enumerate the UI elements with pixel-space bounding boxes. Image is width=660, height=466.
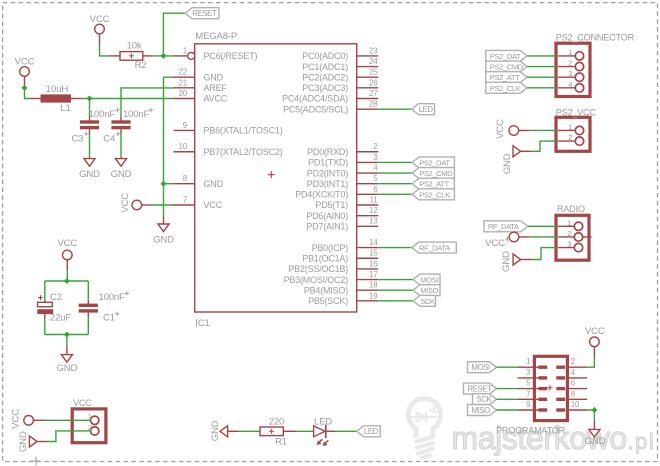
svg-text:MISO: MISO [420, 286, 438, 295]
IC1 pin 6 PD4(XCK/T0) (right) [295, 185, 378, 200]
ground GND (C1/C2) [61, 355, 72, 363]
net label PS2_ATT [412, 178, 454, 189]
svg-text:PS2_CMD: PS2_CMD [490, 62, 524, 71]
svg-text:16: 16 [369, 259, 378, 268]
wire pin28 to LED flag [378, 108, 411, 110]
PROGRAMATOR pin 4 (right) [556, 368, 587, 380]
connector RADIO body [556, 215, 589, 260]
svg-text:3: 3 [567, 240, 571, 249]
svg-text:10uH: 10uH [46, 84, 68, 95]
IC1 pin 20 AVCC (left) [174, 89, 228, 104]
RADIO pin2 right stub [583, 236, 592, 238]
wire rail down to C3 [89, 99, 91, 117]
IC1 pin 3 PD1(TXD) (right) [308, 153, 378, 168]
svg-text:2: 2 [567, 229, 571, 238]
IC1 pin 18 PB4(MISO) (right) [304, 281, 378, 296]
IC1 pin 2 PD0(RXD) (right) [307, 142, 378, 157]
svg-text:PD5(T1): PD5(T1) [315, 200, 348, 210]
svg-text:27: 27 [369, 89, 378, 98]
net label LED (bottom) [357, 426, 381, 437]
capacitor C2 22uF (polarized) [37, 295, 53, 318]
svg-text:100nF: 100nF [123, 109, 150, 120]
wire bottom rail [45, 334, 89, 336]
connector PROGRAMATOR body [534, 356, 567, 420]
svg-text:LED: LED [314, 417, 332, 428]
svg-text:PS2_CMD: PS2_CMD [419, 169, 453, 178]
wire C4 to GND [120, 134, 122, 159]
svg-text:VCC: VCC [90, 14, 110, 25]
svg-text:PC1(ADC1): PC1(ADC1) [302, 62, 348, 72]
wire pin10 to GND [587, 410, 594, 421]
svg-text:4: 4 [568, 80, 572, 89]
power VCC (above R2) [90, 14, 110, 45]
node junction below VCC [22, 85, 28, 91]
PROGRAMATOR pin 5 (left) [518, 379, 548, 391]
wire PS2_CLK to connector [527, 87, 556, 89]
VCC connector pin 2 [88, 423, 99, 435]
svg-text:C2: C2 [50, 292, 62, 303]
svg-text:PS2_ATT: PS2_ATT [419, 180, 449, 189]
connector VCC body [72, 409, 106, 443]
wire C2 down [44, 319, 46, 335]
svg-text:VCC: VCC [495, 119, 506, 139]
svg-text:17: 17 [369, 270, 378, 279]
svg-text:GND: GND [79, 169, 100, 180]
svg-text:10: 10 [571, 400, 580, 409]
svg-text:PC6(/RESET): PC6(/RESET) [204, 51, 258, 61]
RADIO pin 2 [558, 229, 583, 241]
power VCC (C1/C2) [57, 238, 77, 270]
svg-text:3: 3 [568, 69, 572, 78]
ground GND (IC) [158, 224, 169, 232]
wire pin to PS2_CMD flag [378, 172, 412, 174]
wire C3 to GND [89, 134, 91, 159]
wire down to GND [66, 335, 68, 348]
svg-text:23: 23 [369, 46, 378, 55]
PS2_VCC pin 1 [558, 122, 584, 134]
wire rail down to C4 [120, 99, 122, 117]
net label LED [412, 104, 435, 115]
IC1 pin 4 PD2(INT0) (right) [307, 163, 378, 178]
PROGRAMATOR pin 8 (right) [556, 389, 587, 401]
svg-text:1: 1 [567, 218, 571, 227]
IC1 pin 1 PC6(/RESET) (left) [174, 46, 258, 61]
svg-text:2: 2 [571, 357, 575, 366]
node junction at C3 branch [87, 96, 93, 102]
PROGRAMATOR pin 10 (right) [556, 400, 587, 412]
VCC connector pin 1 [88, 412, 99, 424]
PS2_VCC pin 2 [558, 133, 584, 145]
IC1 pin 28 PC5(ADC5/SCL) (right) [283, 100, 378, 115]
svg-text:15: 15 [369, 249, 378, 258]
net label MISO [413, 285, 440, 296]
net label PS2_DAT (right-pointing) [486, 50, 527, 61]
svg-text:12: 12 [369, 206, 378, 215]
svg-text:26: 26 [369, 78, 378, 87]
svg-text:19: 19 [369, 291, 378, 300]
ground GND (PS2_VCC) [513, 146, 521, 157]
svg-text:RESET: RESET [468, 385, 493, 394]
IC1 pin 8 GND (left) [174, 174, 224, 189]
IC1 pin 14 PB0(ICP) (right) [312, 238, 379, 253]
svg-text:LED: LED [364, 427, 379, 436]
svg-text:C3: C3 [72, 134, 84, 145]
svg-text:AREF: AREF [204, 83, 228, 93]
svg-text:C1: C1 [103, 313, 115, 324]
svg-text:VCC: VCC [120, 193, 131, 213]
svg-text:GND: GND [501, 251, 512, 272]
IC1 pin 27 PC4(ADC4/SDA) (right) [282, 89, 378, 104]
svg-text:VCC: VCC [485, 238, 505, 249]
svg-text:220: 220 [269, 417, 284, 428]
capacitor C4 100nF [111, 117, 130, 134]
IC1 pin 10 PB7(XTAL2/TOSC2) (left) [174, 142, 283, 157]
svg-text:PD6(AIN0): PD6(AIN0) [306, 211, 348, 221]
svg-text:L1: L1 [60, 103, 70, 114]
svg-text:21: 21 [179, 78, 188, 87]
svg-text:VCC: VCC [57, 238, 77, 249]
IC1 pin 23 PC0(ADC0) (right) [302, 46, 378, 61]
PROGRAMATOR pin 6 (right) [556, 379, 587, 391]
svg-text:14: 14 [369, 238, 378, 247]
net label PS2_CLK (right-pointing) [486, 82, 527, 93]
svg-text:24: 24 [369, 57, 378, 66]
net label PS2_ATT (right-pointing) [486, 72, 527, 83]
net label SCK [413, 295, 436, 306]
svg-text:VCC: VCC [15, 56, 35, 67]
svg-text:GND: GND [210, 420, 221, 441]
svg-text:10k: 10k [127, 40, 142, 51]
wire MOSI to pin [497, 366, 518, 368]
ground GND (bottom connector) [29, 436, 37, 447]
svg-text:20: 20 [179, 89, 188, 98]
svg-text:PROGRAMATOR: PROGRAMATOR [496, 425, 566, 435]
wire L1 to AVCC rail [82, 98, 174, 100]
svg-text:PS2_CONNECTOR: PS2_CONNECTOR [556, 33, 635, 43]
svg-text:PD7(AIN1): PD7(AIN1) [306, 222, 348, 232]
wire VCC to RADIO pin2 [529, 236, 556, 238]
frame corner tick [32, 457, 41, 466]
wire VCC to pin7 [152, 204, 174, 206]
svg-text:PB4(MISO): PB4(MISO) [304, 285, 348, 295]
wire VCC to R2 [100, 45, 111, 56]
svg-text:11: 11 [370, 195, 379, 204]
net label PS2_CLK [412, 189, 454, 200]
IC1 pin 7 VCC (left) [174, 195, 223, 210]
IC1 pin 19 PB5(SCK) (right) [308, 291, 378, 306]
IC1 pin 15 PB1(OC1A) (right) [302, 249, 378, 264]
wire GND to pin2 [47, 431, 91, 442]
svg-text:PS2_CLK: PS2_CLK [419, 190, 450, 199]
node junction at R2/RESET/pin1 [160, 53, 166, 59]
svg-text:C4: C4 [103, 134, 116, 145]
wire MISO to pin [497, 409, 518, 411]
ground GND (C3) [84, 159, 95, 167]
wire GND to RADIO pin3 [531, 248, 556, 260]
net label PS2_CMD (right-pointing) [486, 61, 527, 72]
IC1 pin 12 PD6(AIN0) (right) [306, 206, 378, 221]
svg-text:PS2_ATT: PS2_ATT [490, 73, 520, 82]
svg-text:PC2(ADC2): PC2(ADC2) [302, 72, 348, 82]
svg-text:4: 4 [571, 368, 576, 377]
svg-text:25: 25 [369, 68, 378, 77]
svg-text:1: 1 [526, 357, 530, 366]
svg-text:RF_DATA: RF_DATA [488, 222, 520, 231]
svg-text:PS2_DAT: PS2_DAT [419, 158, 450, 167]
wire AREF from pin21 left and down to C4 (crosses rail) [121, 88, 174, 99]
svg-text:7: 7 [526, 389, 530, 398]
svg-text:RESET: RESET [192, 9, 217, 18]
IC1 pin 13 PD7(AIN1) (right) [306, 217, 378, 232]
wire VCC down to rail [66, 270, 68, 281]
ground GND (RADIO) [513, 254, 521, 265]
RADIO pin 3 [558, 240, 583, 252]
wire SCK to pin [497, 398, 518, 400]
wire pin to PS2_DAT flag [378, 161, 412, 163]
svg-text:PD2(INT0): PD2(INT0) [307, 168, 348, 178]
power VCC (PS2_VCC) [495, 119, 519, 139]
svg-text:22uF: 22uF [50, 313, 71, 324]
net label RESET [185, 8, 219, 19]
svg-text:VCC: VCC [204, 200, 223, 210]
svg-text:MISO: MISO [472, 406, 491, 415]
wire PS2_CMD to connector [527, 66, 556, 68]
svg-text:PB2(SS/OC1B): PB2(SS/OC1B) [288, 264, 348, 274]
net label SCK (programator) [473, 394, 497, 405]
IC1 pin 11 PD5(T1) (right) [315, 195, 378, 210]
svg-text:PC5(ADC5/SCL): PC5(ADC5/SCL) [283, 104, 348, 114]
PS2_CONNECTOR pin 3 [558, 69, 584, 81]
svg-text:IC1: IC1 [195, 318, 209, 329]
svg-text:R2: R2 [135, 60, 147, 71]
svg-text:PB6(XTAL1/TOSC1): PB6(XTAL1/TOSC1) [204, 126, 283, 136]
IC1 pin 9 PB6(XTAL1/TOSC1) (left) [174, 121, 283, 136]
svg-text:3: 3 [526, 368, 530, 377]
IC1 pin 17 PB3(MOSI/OC2) (right) [284, 270, 379, 285]
wire pin to MOSI flag [378, 279, 413, 281]
svg-text:PB1(OC1A): PB1(OC1A) [302, 253, 348, 263]
capacitor C1 100nF [79, 300, 98, 317]
svg-text:MOSI: MOSI [472, 363, 491, 372]
IC1 pin 25 PC2(ADC2) (right) [302, 68, 378, 83]
power VCC (bottom connector) [10, 409, 33, 429]
net label RF_DATA [412, 242, 457, 253]
svg-text:SCK: SCK [420, 297, 435, 306]
svg-text:LED: LED [419, 105, 434, 114]
IC1 pin 21 AREF (left) [174, 78, 228, 93]
svg-text:6: 6 [571, 379, 575, 388]
IC1 pin 24 PC1(ADC1) (right) [302, 57, 378, 72]
wire VCC to pin2 [587, 357, 594, 367]
op IC frame: microcontroller U/IC1 MEGA8-P body [195, 44, 357, 312]
power VCC (programator) [585, 326, 605, 347]
power VCC (RADIO) [485, 232, 519, 249]
RADIO pin 1 [558, 218, 583, 230]
svg-text:R1: R1 [275, 437, 287, 448]
wire R2 to pin1 junction [153, 55, 174, 57]
connector PS2_CONNECTOR body [556, 43, 590, 96]
PROGRAMATOR pin 3 (left) [518, 368, 548, 380]
svg-text:100nF: 100nF [89, 109, 116, 120]
wire GND rail down [163, 184, 165, 216]
svg-text:RF_DATA: RF_DATA [419, 244, 451, 253]
power VCC (pin 7) [120, 193, 142, 213]
PS2_CONNECTOR pin 1 [558, 48, 584, 60]
ground GND (programator) [589, 429, 600, 437]
svg-text:GND: GND [502, 153, 513, 174]
svg-text:GND: GND [153, 235, 174, 246]
svg-text:GND: GND [585, 436, 606, 447]
svg-text:10: 10 [179, 142, 188, 151]
svg-text:PD1(TXD): PD1(TXD) [308, 158, 348, 168]
svg-text:.pl: .pl [628, 429, 656, 454]
wire C1 down [87, 317, 89, 335]
IC1 pin 26 PC3(ADC3) (right) [302, 78, 378, 93]
ground GND (R1 chain) [220, 426, 228, 437]
wire pin to PS2_ATT flag [378, 183, 412, 185]
wire pin22 GND left and down [164, 77, 174, 184]
svg-text:GND: GND [204, 72, 224, 82]
wire RESET to pin [497, 388, 518, 390]
svg-text:GND: GND [57, 363, 78, 374]
net label PS2_DAT [412, 157, 454, 168]
svg-text:PC0(ADC0): PC0(ADC0) [302, 51, 348, 61]
power VCC (above L1) [15, 56, 35, 88]
wire pin8 GND [164, 183, 174, 185]
IC origin cross [268, 171, 275, 178]
wire GND to PS2_VCC pin2 [531, 141, 556, 151]
ground GND (C4) [115, 159, 126, 167]
svg-text:MEGA8-P: MEGA8-P [195, 31, 237, 42]
wire VCC to PS2_VCC pin1 [529, 129, 556, 131]
wire pin to MISO flag [378, 289, 413, 291]
svg-text:PB7(XTAL2/TOSC2): PB7(XTAL2/TOSC2) [204, 147, 283, 157]
svg-text:1: 1 [568, 122, 572, 131]
svg-text:RADIO: RADIO [557, 204, 585, 214]
wire LED to flag [335, 430, 357, 432]
svg-text:GND: GND [111, 169, 132, 180]
svg-text:100nF: 100nF [99, 292, 126, 303]
svg-text:PS2_VCC: PS2_VCC [556, 107, 597, 117]
PROGRAMATOR pin 7 (left) [518, 389, 548, 401]
wire VCC down and right to L1 [25, 88, 31, 99]
wire PS2_ATT to connector [527, 76, 556, 78]
svg-text:2: 2 [568, 133, 572, 142]
IC1 pin 22 GND (left) [174, 68, 224, 83]
IC1 pin 16 PB2(SS/OC1B) (right) [288, 259, 378, 274]
svg-text:1: 1 [568, 48, 572, 57]
node junction bottom rail [64, 332, 70, 338]
svg-text:13: 13 [369, 217, 378, 226]
svg-text:PB0(ICP): PB0(ICP) [312, 243, 349, 253]
node junction top rail [64, 278, 70, 284]
svg-text:VCC: VCC [73, 398, 92, 408]
PS2_CONNECTOR pin 2 [558, 59, 584, 71]
net label MOSI (programator) [468, 362, 497, 373]
net label RF_DATA (right-pointing) [484, 221, 528, 232]
svg-text:9: 9 [526, 400, 530, 409]
PROGRAMATOR pin 1 (left) [518, 357, 548, 369]
watermark light bulb logo [408, 399, 440, 458]
svg-text:22: 22 [179, 68, 188, 77]
svg-text:MOSI: MOSI [420, 275, 438, 284]
LED diode symbol [314, 417, 336, 446]
svg-text:SCK: SCK [477, 395, 493, 404]
svg-text:PD4(XCK/T0): PD4(XCK/T0) [295, 190, 348, 200]
IC1 pin 5 PD3(INT1) (right) [307, 174, 378, 189]
PROGRAMATOR origin cross [547, 385, 552, 390]
wire pin14 to RF_DATA flag [378, 247, 412, 249]
inductor L1 10uH [30, 84, 82, 114]
net label MOSI [413, 274, 440, 285]
resistor R1 220 [260, 417, 297, 448]
svg-text:2: 2 [568, 59, 572, 68]
net label RESET (programator) [464, 383, 497, 394]
svg-text:PB3(MOSI/OC2): PB3(MOSI/OC2) [284, 275, 349, 285]
wire PS2_DAT to connector [527, 55, 556, 57]
svg-text:PD0(RXD): PD0(RXD) [307, 147, 348, 157]
PROGRAMATOR pin 9 (left) [518, 400, 548, 412]
node junction pin10/GND [591, 407, 597, 413]
capacitor C3 100nF [80, 117, 99, 134]
PS2_CONNECTOR pin 4 [558, 80, 584, 92]
wire down to C1 [87, 281, 89, 300]
connector PS2_VCC body [556, 117, 590, 151]
svg-text:VCC: VCC [585, 326, 605, 337]
resistor R2 10k [110, 40, 153, 70]
wire pin to SCK flag [378, 300, 413, 302]
wire down to C2 [44, 281, 46, 300]
svg-text:18: 18 [369, 281, 378, 290]
wire junction up to RESET flag [163, 13, 185, 56]
wire top rail [45, 280, 89, 282]
svg-text:5: 5 [526, 379, 531, 388]
svg-text:GND: GND [204, 179, 224, 189]
net label MISO (programator) [468, 405, 497, 416]
PROGRAMATOR pin 2 (right) [556, 357, 587, 369]
net label PS2_CMD [412, 168, 454, 179]
svg-text:VCC: VCC [10, 409, 21, 429]
wire pin to PS2_CLK flag [378, 193, 412, 195]
wire RF_DATA to RADIO pin1 [528, 225, 556, 227]
svg-text:PC4(ADC4/SDA): PC4(ADC4/SDA) [282, 94, 348, 104]
svg-text:PC3(ADC3): PC3(ADC3) [302, 83, 348, 93]
svg-text:28: 28 [369, 100, 378, 109]
svg-text:GND: GND [18, 431, 29, 452]
svg-text:PS2_DAT: PS2_DAT [490, 52, 521, 61]
svg-text:AVCC: AVCC [204, 94, 228, 104]
svg-text:PD3(INT1): PD3(INT1) [307, 179, 348, 189]
wire R1 to LED [297, 430, 314, 432]
wire VCC to pin1 [44, 419, 91, 421]
wire GND to R1 [239, 430, 260, 432]
svg-text:8: 8 [571, 389, 575, 398]
svg-text:PS2_CLK: PS2_CLK [490, 84, 521, 93]
svg-text:PB5(SCK): PB5(SCK) [308, 296, 348, 306]
node junction GND rail [161, 181, 167, 187]
